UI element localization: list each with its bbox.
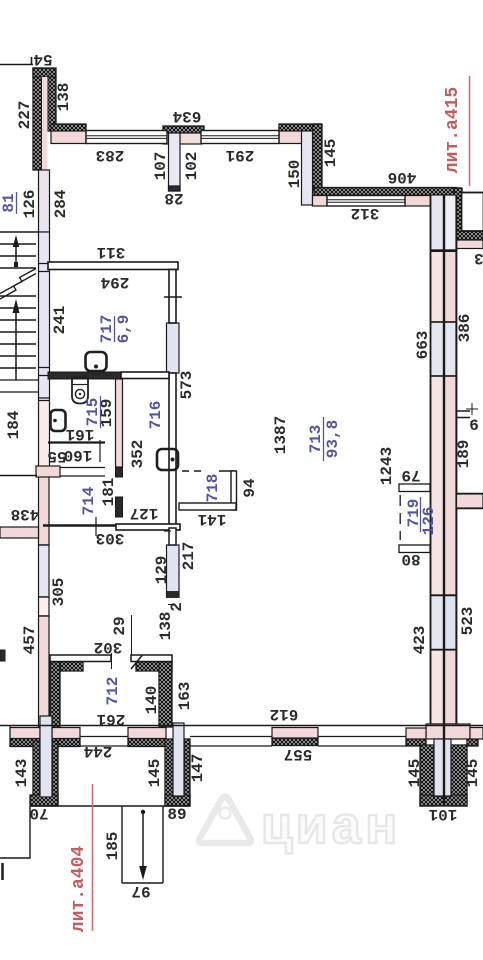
svg-text:138: 138 [55,83,73,112]
svg-text:161: 161 [66,425,95,443]
svg-text:189: 189 [455,440,473,469]
svg-text:93,8: 93,8 [324,420,342,458]
svg-text:261: 261 [97,710,126,728]
svg-text:140: 140 [143,686,161,715]
svg-text:284: 284 [52,189,70,218]
svg-text:386: 386 [456,314,474,343]
svg-text:181: 181 [100,478,118,507]
svg-text:244: 244 [83,742,112,760]
svg-text:717: 717 [98,315,116,344]
svg-text:714: 714 [80,486,98,515]
svg-text:718: 718 [204,474,222,503]
svg-text:241: 241 [51,306,69,335]
svg-text:291: 291 [226,146,255,164]
svg-text:28: 28 [164,189,183,207]
svg-text:294: 294 [100,273,129,291]
svg-text:лит.а404: лит.а404 [69,846,89,933]
svg-text:54: 54 [33,50,53,68]
svg-text:612: 612 [270,705,299,723]
svg-text:573: 573 [178,371,196,400]
svg-text:89: 89 [167,806,186,824]
svg-text:283: 283 [96,146,125,164]
svg-text:716: 716 [147,401,165,430]
svg-text:457: 457 [21,626,39,655]
svg-text:лит.а415: лит.а415 [443,87,463,173]
svg-text:1387: 1387 [272,416,290,454]
svg-text:663: 663 [414,331,432,360]
svg-text:6,9: 6,9 [115,315,133,344]
svg-text:302: 302 [94,638,123,656]
svg-text:305: 305 [50,578,68,607]
svg-text:303: 303 [96,529,125,547]
svg-text:160: 160 [64,446,93,464]
svg-text:184: 184 [5,410,23,439]
svg-text:406: 406 [388,168,417,186]
svg-text:126: 126 [21,190,39,219]
svg-text:126: 126 [420,507,438,536]
svg-text:227: 227 [16,101,34,130]
svg-text:80: 80 [401,550,420,568]
svg-text:1243: 1243 [378,447,396,485]
svg-text:185: 185 [104,832,122,861]
svg-text:423: 423 [411,626,429,655]
svg-text:713: 713 [307,425,325,454]
svg-text:311: 311 [97,243,126,261]
svg-text:29: 29 [111,616,129,635]
svg-text:81: 81 [0,193,18,212]
svg-text:101: 101 [429,805,458,823]
svg-text:634: 634 [172,107,201,125]
svg-text:163: 163 [176,682,194,711]
svg-text:6: 6 [469,417,479,435]
svg-text:2: 2 [168,602,186,612]
svg-text:107: 107 [152,152,170,181]
svg-text:129: 129 [153,556,171,585]
svg-text:102: 102 [183,152,201,181]
svg-text:715: 715 [84,398,102,427]
svg-text:143: 143 [13,759,31,788]
svg-text:523: 523 [459,607,477,636]
svg-text:3: 3 [474,249,483,267]
svg-text:312: 312 [351,204,380,222]
svg-text:127: 127 [130,504,159,522]
svg-text:138: 138 [157,612,175,641]
svg-text:145: 145 [322,139,340,168]
svg-text:79: 79 [401,466,420,484]
svg-text:557: 557 [284,745,313,763]
svg-text:150: 150 [286,160,304,189]
svg-text:145: 145 [146,759,164,788]
svg-text:147: 147 [189,754,207,783]
svg-text:712: 712 [104,677,122,706]
svg-text:352: 352 [129,440,147,469]
svg-text:217: 217 [180,542,198,571]
svg-text:141: 141 [198,510,227,528]
svg-text:94: 94 [241,478,259,498]
svg-text:97: 97 [131,882,150,900]
svg-text:циан: циан [261,799,400,859]
svg-text:70: 70 [29,804,48,822]
svg-text:438: 438 [11,505,40,523]
svg-text:145: 145 [406,759,424,788]
svg-text:145: 145 [464,759,482,788]
